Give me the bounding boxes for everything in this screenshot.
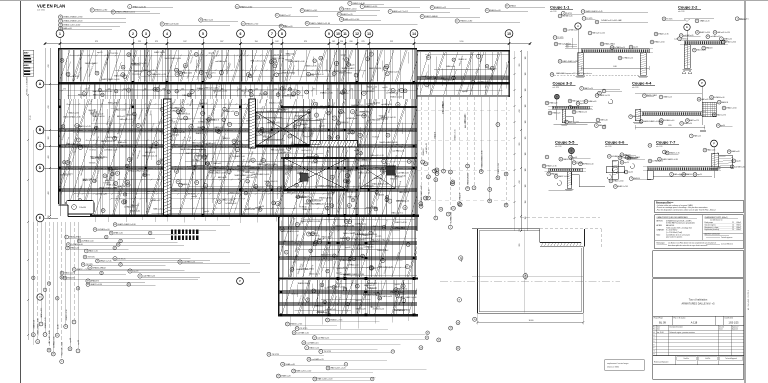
notes box remarques xyxy=(655,200,744,212)
svg-text:8: 8 xyxy=(61,361,62,363)
svg-text:225: 225 xyxy=(361,41,364,43)
svg-text:2: 2 xyxy=(132,32,134,36)
svg-text:reference: #B/30: reference: #B/30 xyxy=(607,366,619,368)
svg-text:43: 43 xyxy=(128,284,130,286)
slab vertical edge x=417 xyxy=(415,48,417,231)
svg-text:6HA20 L=7.45: 6HA20 L=7.45 xyxy=(216,129,230,132)
svg-text:36: 36 xyxy=(110,233,112,235)
svg-text:32: 32 xyxy=(115,91,117,93)
signature row xyxy=(653,356,744,365)
svg-text:225: 225 xyxy=(138,41,141,43)
svg-text:6: 6 xyxy=(345,364,346,366)
svg-text:10.60: 10.60 xyxy=(529,320,534,322)
tremie opening bottom-left xyxy=(66,201,94,215)
svg-text:2: 2 xyxy=(389,201,390,203)
svg-text:20: 20 xyxy=(371,379,373,381)
svg-text:36: 36 xyxy=(59,17,61,19)
svg-text:5HA8 e=20: 5HA8 e=20 xyxy=(356,307,367,310)
svg-text:59: 59 xyxy=(250,94,252,96)
svg-text:5HA32+5HA20 L=9.80: 5HA32+5HA20 L=9.80 xyxy=(372,183,389,186)
svg-text:200: 200 xyxy=(181,89,184,91)
svg-text:410: 410 xyxy=(519,181,521,184)
svg-text:29: 29 xyxy=(452,208,454,210)
svg-text:HA8 e=20 L=1.20: HA8 e=20 L=1.20 xyxy=(379,266,393,269)
svg-text:10: 10 xyxy=(327,368,329,370)
svg-text:48: 48 xyxy=(158,163,160,165)
slab top edge right part xyxy=(417,49,510,51)
top sheet edge xyxy=(0,0,768,2)
Coupe 7-7 section detail xyxy=(643,140,745,180)
P bubble left xyxy=(237,278,244,285)
svg-text:49: 49 xyxy=(67,74,69,76)
svg-text:16: 16 xyxy=(102,210,104,212)
svg-text:125: 125 xyxy=(85,89,88,91)
svg-text:7: 7 xyxy=(41,324,42,326)
svg-text:HA10 e=15: HA10 e=15 xyxy=(105,179,114,182)
terrace dimension below xyxy=(477,321,583,323)
beam bottom of block C xyxy=(417,94,510,96)
svg-text:31: 31 xyxy=(626,157,628,159)
svg-text:49: 49 xyxy=(294,126,296,128)
svg-text:35: 35 xyxy=(352,200,354,202)
svg-text:12: 12 xyxy=(680,35,682,37)
svg-text:3HA16+2HA12: 3HA16+2HA12 xyxy=(318,185,331,188)
svg-text:- Pour les dispositions constr: - Pour les dispositions constructives, u… xyxy=(656,209,716,212)
extra left bubble xyxy=(37,294,43,300)
svg-text:8: 8 xyxy=(281,32,283,36)
svg-text:10: 10 xyxy=(655,34,657,36)
svg-text:16: 16 xyxy=(252,160,254,162)
svg-text:34: 34 xyxy=(570,157,572,159)
svg-text:36: 36 xyxy=(48,350,50,352)
svg-text:13: 13 xyxy=(704,150,706,152)
svg-text:HA10 e=15: HA10 e=15 xyxy=(382,295,392,298)
svg-text:45: 45 xyxy=(640,121,642,123)
svg-text:ep=20: ep=20 xyxy=(354,208,359,210)
svg-text:200: 200 xyxy=(255,89,258,91)
svg-text:16: 16 xyxy=(124,201,126,203)
svg-text:19: 19 xyxy=(56,298,58,300)
svg-text:2x7HA14 e=10: 2x7HA14 e=10 xyxy=(355,223,366,226)
svg-text:9: 9 xyxy=(248,74,249,76)
svg-text:27: 27 xyxy=(559,61,561,63)
svg-text:14: 14 xyxy=(412,32,416,36)
svg-text:13: 13 xyxy=(333,256,335,258)
svg-text:26: 26 xyxy=(65,326,67,328)
svg-text:5.90: 5.90 xyxy=(679,175,682,177)
svg-text:375: 375 xyxy=(95,41,98,43)
svg-text:187: 187 xyxy=(289,89,292,91)
svg-text:41: 41 xyxy=(105,237,107,239)
svg-text:47: 47 xyxy=(91,10,93,12)
sheet right border line xyxy=(744,0,746,383)
svg-text:120: 120 xyxy=(525,89,527,92)
svg-text:TS ST25: TS ST25 xyxy=(89,163,96,165)
svg-text:37: 37 xyxy=(693,50,695,52)
svg-text:22: 22 xyxy=(621,162,623,164)
svg-text:3HA16+2HA12: 3HA16+2HA12 xyxy=(397,309,410,312)
svg-text:24: 24 xyxy=(67,244,69,246)
svg-text:46: 46 xyxy=(707,36,709,38)
svg-text:4: 4 xyxy=(560,16,561,18)
svg-text:10: 10 xyxy=(206,163,208,165)
svg-text:Ver/Chk: Ver/Chk xyxy=(705,358,710,360)
svg-text:ep=20: ep=20 xyxy=(242,189,247,191)
svg-text:5HA8 e=20: 5HA8 e=20 xyxy=(182,94,190,97)
svg-text:22: 22 xyxy=(286,324,288,326)
svg-text:HA8 e=20 L=1.20: HA8 e=20 L=1.20 xyxy=(152,73,166,76)
svg-text:cad HA8 e=15: cad HA8 e=15 xyxy=(317,311,329,314)
svg-text:Drawn: Drawn xyxy=(719,328,723,330)
svg-text:HA8 e=20 L=1.20: HA8 e=20 L=1.20 xyxy=(67,143,81,146)
svg-text:6: 6 xyxy=(547,157,548,159)
slab bottom-left step xyxy=(58,204,68,206)
svg-text:54: 54 xyxy=(296,185,298,187)
Coupe 3-3 section detail xyxy=(545,81,620,128)
svg-text:51: 51 xyxy=(176,91,178,93)
svg-text:Rev: Rev xyxy=(653,328,656,330)
svg-text:6: 6 xyxy=(219,201,220,203)
svg-text:13: 13 xyxy=(176,70,178,72)
svg-text:9: 9 xyxy=(409,161,410,163)
svg-text:11: 11 xyxy=(343,32,347,36)
svg-text:39: 39 xyxy=(327,271,329,273)
Coupe 2-2 section detail xyxy=(674,5,736,74)
svg-text:16: 16 xyxy=(307,300,309,302)
svg-text:6HA20 L=7.45: 6HA20 L=7.45 xyxy=(107,167,118,170)
svg-text:29: 29 xyxy=(176,171,178,173)
svg-text:12: 12 xyxy=(596,22,598,24)
svg-text:41: 41 xyxy=(112,12,114,14)
svg-text:ep=20: ep=20 xyxy=(624,162,629,164)
svg-text:12: 12 xyxy=(268,354,270,356)
svg-text:TS ST25: TS ST25 xyxy=(338,113,346,115)
svg-text:7: 7 xyxy=(276,74,277,76)
shear wall core 2 xyxy=(249,99,256,148)
svg-text:34: 34 xyxy=(63,162,65,164)
svg-text:TS ST25: TS ST25 xyxy=(311,163,318,165)
svg-text:53: 53 xyxy=(564,30,566,32)
svg-text:HA12 e=17.5: HA12 e=17.5 xyxy=(370,306,380,309)
svg-text:6: 6 xyxy=(86,251,87,253)
gridline dash-dot through terrace xyxy=(440,281,620,283)
svg-text:16: 16 xyxy=(32,277,34,279)
svg-text:162: 162 xyxy=(275,41,278,43)
svg-text:cad HA8 e=15: cad HA8 e=15 xyxy=(95,193,107,196)
svg-text:31: 31 xyxy=(296,328,298,330)
svg-text:Rev: Rev xyxy=(653,327,656,329)
svg-text:28: 28 xyxy=(82,264,84,266)
svg-text:31: 31 xyxy=(116,173,118,175)
svg-text:16: 16 xyxy=(277,203,279,205)
dimension text row under beam A xyxy=(58,89,417,92)
svg-text:175: 175 xyxy=(63,89,66,91)
svg-text:HA12 e=17.5: HA12 e=17.5 xyxy=(232,143,243,146)
svg-text:cad HA8 e=15: cad HA8 e=15 xyxy=(215,60,227,63)
svg-text:40: 40 xyxy=(87,284,89,286)
svg-text:HA8 e=20 L=1.20: HA8 e=20 L=1.20 xyxy=(120,118,133,121)
svg-text:162: 162 xyxy=(372,89,375,91)
svg-text:5HA32+5HA20 L=9.80: 5HA32+5HA20 L=9.80 xyxy=(288,60,305,63)
svg-text:ep=20: ep=20 xyxy=(57,324,59,329)
plan block B xyxy=(20,86,450,215)
svg-text:4: 4 xyxy=(583,11,584,13)
svg-text:TS ST25: TS ST25 xyxy=(110,53,118,55)
svg-text:HA12 e=17.5: HA12 e=17.5 xyxy=(40,308,43,318)
svg-text:57: 57 xyxy=(223,119,225,121)
svg-text:BETON:: BETON: xyxy=(657,220,664,222)
svg-text:7: 7 xyxy=(691,136,692,138)
svg-text:cad HA8 e=15: cad HA8 e=15 xyxy=(280,151,291,154)
svg-text:HA12 e=17.5: HA12 e=17.5 xyxy=(391,211,402,214)
svg-text:6HA20 L=7.45: 6HA20 L=7.45 xyxy=(269,101,281,104)
svg-text:ep=20: ep=20 xyxy=(362,111,367,113)
svg-text:60: 60 xyxy=(549,113,551,115)
top annotation leader lines xyxy=(58,1,545,30)
svg-text:135: 135 xyxy=(350,89,353,91)
svg-text:25: 25 xyxy=(78,241,80,243)
svg-text:42: 42 xyxy=(67,248,69,250)
svg-text:33: 33 xyxy=(686,120,688,122)
svg-text:38: 38 xyxy=(566,122,568,124)
svg-text:9: 9 xyxy=(347,304,348,306)
svg-text:5HA8 e=20: 5HA8 e=20 xyxy=(286,52,296,55)
svg-text:G = 6.50 kN/m2: G = 6.50 kN/m2 xyxy=(666,230,677,232)
svg-text:14: 14 xyxy=(459,204,461,206)
svg-text:1: 1 xyxy=(362,6,363,8)
svg-text:dec 19.06: dec 19.06 xyxy=(657,332,664,334)
svg-text:37: 37 xyxy=(506,6,508,8)
svg-text:6HA20 L=7.45: 6HA20 L=7.45 xyxy=(79,125,91,128)
svg-text:TS ST25: TS ST25 xyxy=(372,137,379,139)
svg-text:HA10 e=15: HA10 e=15 xyxy=(367,286,376,289)
svg-text:30: 30 xyxy=(273,202,275,204)
svg-text:162: 162 xyxy=(274,89,277,91)
grid bubbles top row xyxy=(56,30,513,38)
svg-text:3HA16+2HA12: 3HA16+2HA12 xyxy=(441,103,444,114)
svg-text:19: 19 xyxy=(348,205,350,207)
svg-text:8HA14 fil: 8HA14 fil xyxy=(374,177,383,180)
svg-text:1: 1 xyxy=(408,244,409,246)
svg-text:29: 29 xyxy=(420,347,422,349)
svg-text:33: 33 xyxy=(347,238,349,240)
svg-text:24: 24 xyxy=(180,73,182,75)
svg-text:ep=20: ep=20 xyxy=(349,64,354,66)
svg-text:55: 55 xyxy=(658,159,660,161)
svg-text:ep=20: ep=20 xyxy=(274,54,279,56)
stair opening cluster 2 xyxy=(284,158,395,190)
svg-text:18: 18 xyxy=(551,74,553,76)
svg-text:HA12 e=17.5: HA12 e=17.5 xyxy=(61,173,71,176)
svg-text:27: 27 xyxy=(48,283,50,285)
svg-text:20: 20 xyxy=(449,172,451,174)
svg-text:10: 10 xyxy=(321,285,323,287)
svg-text:Coupe 6-6: Coupe 6-6 xyxy=(605,140,625,145)
svg-text:44: 44 xyxy=(259,209,261,211)
svg-text:51: 51 xyxy=(30,62,32,64)
svg-text:20: 20 xyxy=(338,14,340,16)
svg-text:3: 3 xyxy=(386,199,387,201)
svg-text:1: 1 xyxy=(78,351,79,353)
svg-text:HA10 e=15: HA10 e=15 xyxy=(192,141,201,144)
svg-text:cad HA8 e=15: cad HA8 e=15 xyxy=(381,103,392,106)
svg-text:6.55: 6.55 xyxy=(668,125,671,127)
svg-text:28: 28 xyxy=(96,261,98,263)
svg-text:H: H xyxy=(654,354,655,356)
svg-text:31: 31 xyxy=(307,74,309,76)
svg-text:35: 35 xyxy=(457,348,459,350)
svg-text:5: 5 xyxy=(387,73,388,75)
svg-text:23: 23 xyxy=(666,153,668,155)
svg-text:4: 4 xyxy=(403,300,404,302)
svg-text:BL 09: BL 09 xyxy=(659,320,666,324)
svg-text:ep=20: ep=20 xyxy=(343,274,349,276)
svg-text:39: 39 xyxy=(427,332,429,334)
svg-text:18: 18 xyxy=(630,116,632,118)
svg-text:200: 200 xyxy=(349,41,352,43)
svg-text:ech 1/20: ech 1/20 xyxy=(550,11,557,13)
svg-text:5: 5 xyxy=(202,32,204,36)
svg-text:HA8 e=20 L=1.20: HA8 e=20 L=1.20 xyxy=(271,148,285,151)
svg-text:6: 6 xyxy=(563,13,564,15)
svg-text:8: 8 xyxy=(434,171,435,173)
svg-text:22: 22 xyxy=(443,171,445,173)
svg-text:HA12 e=17.5: HA12 e=17.5 xyxy=(464,114,467,124)
svg-text:95: 95 xyxy=(30,59,32,61)
svg-text:17: 17 xyxy=(276,15,278,17)
svg-text:20: 20 xyxy=(137,125,139,127)
svg-text:ep=20: ep=20 xyxy=(345,247,350,249)
svg-text:F: F xyxy=(654,347,655,349)
svg-text:60: 60 xyxy=(263,160,265,162)
svg-text:9: 9 xyxy=(320,351,321,353)
svg-text:52: 52 xyxy=(59,21,61,23)
annotation rows below block D xyxy=(267,317,477,381)
svg-text:125: 125 xyxy=(238,89,241,91)
svg-text:44: 44 xyxy=(313,290,315,292)
svg-text:5: 5 xyxy=(590,33,591,35)
svg-text:HA12 e=17.5: HA12 e=17.5 xyxy=(322,236,332,239)
svg-text:HA8 e=20 L=1.20: HA8 e=20 L=1.20 xyxy=(371,154,384,157)
svg-text:120: 120 xyxy=(525,185,527,188)
svg-text:HA12 e=17.5: HA12 e=17.5 xyxy=(146,190,157,193)
beam bottom of block B (dark band) xyxy=(90,215,419,217)
Coupe 5-5 section detail xyxy=(542,140,605,191)
svg-text:5HA32+5HA20 L=9.80: 5HA32+5HA20 L=9.80 xyxy=(37,318,40,335)
svg-text:19: 19 xyxy=(293,332,295,334)
svg-text:5HA32+5HA20 L=9.80: 5HA32+5HA20 L=9.80 xyxy=(63,115,80,118)
svg-text:8HA14 fil: 8HA14 fil xyxy=(376,193,384,196)
svg-text:e=4: e=4 xyxy=(566,45,569,47)
svg-text:ARMATURES DALLE NIV. +5: ARMATURES DALLE NIV. +5 xyxy=(682,303,716,306)
svg-text:7: 7 xyxy=(149,73,150,75)
svg-text:34: 34 xyxy=(489,189,491,191)
svg-text:42: 42 xyxy=(161,109,163,111)
svg-text:TS ST25: TS ST25 xyxy=(355,300,362,302)
terrace top edge line to plan xyxy=(472,228,512,230)
svg-text:36: 36 xyxy=(328,113,330,115)
svg-text:HA10 e=15: HA10 e=15 xyxy=(310,234,319,237)
svg-text:13: 13 xyxy=(452,182,454,184)
svg-text:22: 22 xyxy=(456,21,458,23)
horizontal grid lines xyxy=(58,129,417,131)
svg-text:9.50: 9.50 xyxy=(460,41,464,43)
svg-text:2x7HA14 e=10: 2x7HA14 e=10 xyxy=(170,128,182,131)
svg-text:4HA12 L=3.50: 4HA12 L=3.50 xyxy=(154,51,165,54)
svg-text:57: 57 xyxy=(332,191,334,193)
svg-text:24: 24 xyxy=(614,186,616,188)
svg-text:4: 4 xyxy=(221,72,222,74)
svg-text:180: 180 xyxy=(525,169,527,172)
svg-text:28: 28 xyxy=(52,354,54,356)
plan block A xyxy=(47,43,421,81)
right vertical dimension line xyxy=(520,51,522,231)
svg-text:A 118: A 118 xyxy=(691,320,698,324)
svg-text:18: 18 xyxy=(436,173,438,175)
svg-text:2x7HA14 e=10: 2x7HA14 e=10 xyxy=(266,110,278,113)
svg-text:TS ST25: TS ST25 xyxy=(291,293,299,295)
svg-text:2x7HA14 e=10: 2x7HA14 e=10 xyxy=(386,91,398,94)
svg-text:20: 20 xyxy=(340,9,342,11)
svg-text:5HA32+5HA20 L=9.80: 5HA32+5HA20 L=9.80 xyxy=(234,174,252,177)
svg-text:10: 10 xyxy=(577,103,579,105)
svg-text:19: 19 xyxy=(694,174,696,176)
svg-text:3HA16+2HA12: 3HA16+2HA12 xyxy=(467,173,470,184)
svg-text:15: 15 xyxy=(285,252,287,254)
svg-text:22: 22 xyxy=(319,241,321,243)
svg-text:e=20: e=20 xyxy=(674,38,678,40)
svg-text:45: 45 xyxy=(315,104,317,106)
svg-text:23: 23 xyxy=(277,376,279,378)
svg-text:28: 28 xyxy=(457,322,459,324)
svg-text:410: 410 xyxy=(48,65,50,68)
svg-text:cad HA8 e=15: cad HA8 e=15 xyxy=(91,167,103,170)
svg-text:5HA32+5HA20 L=9.80: 5HA32+5HA20 L=9.80 xyxy=(281,230,298,233)
svg-text:43: 43 xyxy=(573,112,575,114)
svg-text:20: 20 xyxy=(608,156,610,158)
svg-text:375: 375 xyxy=(155,41,158,43)
svg-text:HA12 e=17.5: HA12 e=17.5 xyxy=(205,71,215,74)
svg-text:36: 36 xyxy=(424,198,426,200)
svg-text:58: 58 xyxy=(569,101,571,103)
svg-text:49: 49 xyxy=(122,74,124,76)
svg-text:ep=20: ep=20 xyxy=(204,211,209,213)
svg-text:ech 1/20: ech 1/20 xyxy=(656,146,663,148)
svg-text:45: 45 xyxy=(649,161,651,163)
svg-text:12: 12 xyxy=(355,32,359,36)
vertical beams along grid lines with column blobs xyxy=(58,49,415,317)
svg-text:32: 32 xyxy=(651,42,653,44)
svg-text:8: 8 xyxy=(360,153,361,155)
plot info small box xyxy=(605,360,644,370)
top dimension line xyxy=(45,43,530,45)
svg-text:42: 42 xyxy=(362,256,364,258)
svg-text:ech 1/20: ech 1/20 xyxy=(555,146,562,148)
svg-text:HA8 e=20 L=1.20: HA8 e=20 L=1.20 xyxy=(177,113,190,116)
svg-text:6HA20 L=7.45: 6HA20 L=7.45 xyxy=(454,129,457,140)
svg-text:8HA14 fil: 8HA14 fil xyxy=(434,131,437,138)
svg-text:5HA8 e=20: 5HA8 e=20 xyxy=(278,108,289,111)
svg-text:HA12 e=17.5: HA12 e=17.5 xyxy=(309,272,319,275)
svg-text:4: 4 xyxy=(383,161,384,163)
svg-text:25: 25 xyxy=(733,160,735,162)
svg-text:6HA20 L=7.45: 6HA20 L=7.45 xyxy=(291,143,303,146)
right open zone callout verticals xyxy=(417,97,510,229)
svg-text:55: 55 xyxy=(191,91,193,93)
svg-text:10: 10 xyxy=(336,32,340,36)
svg-text:ech 1/20: ech 1/20 xyxy=(605,146,612,148)
svg-text:115: 115 xyxy=(123,89,126,91)
